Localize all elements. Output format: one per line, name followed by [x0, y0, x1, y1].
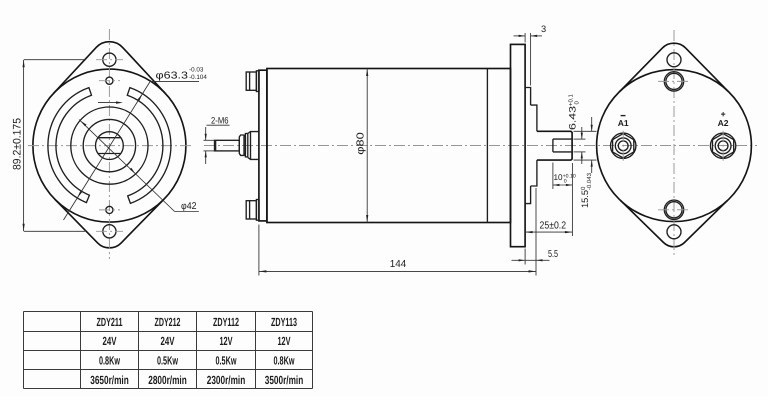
middle view: top tie bolt washer: [256, 71, 259, 92]
middle view: left end cap: [259, 70, 267, 221]
middle view: dimension 10 +0.1/0 (slot depth): [552, 163, 554, 190]
middle view: bottom tie bolt head: [246, 201, 256, 219]
middle view: φ63.3 spigot boss: [525, 88, 531, 204]
right view: bottom ear hole: [667, 225, 681, 239]
svg-text:ZDY211: ZDY211: [97, 315, 123, 329]
middle view: dimension 3 (spigot step): [524, 33, 526, 43]
right view: flange plate ears: [619, 43, 728, 92]
svg-text:3: 3: [541, 24, 546, 34]
middle view: body seam line: [486, 69, 488, 223]
svg-text:12V: 12V: [220, 334, 233, 348]
middle view: dimension 15.5 0/-0.043 (shaft dia): [574, 130, 597, 132]
svg-text:2800r/min: 2800r/min: [148, 373, 187, 387]
middle view: bottom tie bolt washer: [256, 200, 259, 221]
svg-text:3500r/min: 3500r/min: [265, 373, 304, 387]
spec table grid: [24, 311, 313, 313]
middle view: dimension 6.43 +0.1/0 (slot width): [574, 138, 586, 140]
right view: bottom through-bolt (double circle): [664, 200, 683, 219]
left view: bottom ear mounting hole: [103, 225, 116, 238]
left view: top ear mounting hole: [103, 53, 116, 66]
svg-text:5.5: 5.5: [548, 249, 558, 260]
left view: bottom through-bolt hole: [106, 206, 113, 213]
svg-text:ZDY212: ZDY212: [155, 315, 181, 329]
middle view: shaft slot (keyway): [553, 138, 572, 140]
terminal A1: [611, 133, 636, 158]
middle view: dimension 25±0.2: [525, 231, 572, 233]
svg-text:φ42: φ42: [181, 201, 197, 212]
svg-text:φ63.3: φ63.3: [156, 71, 189, 82]
svg-text:3650r/min: 3650r/min: [90, 373, 129, 387]
svg-text:25±0.2: 25±0.2: [540, 220, 567, 231]
right view: motor body circle: [597, 70, 752, 222]
middle view: dimension 5.5: [524, 249, 526, 265]
terminal A2: [710, 133, 735, 158]
left view: flange plate outline (diamond ears): [53, 42, 165, 94]
right view: top ear hole: [667, 53, 681, 67]
middle view: dimension 2-M6: [204, 139, 215, 141]
middle view: output shaft: [537, 131, 572, 160]
middle view: motor body: [267, 69, 511, 223]
middle view: dimension 144: [258, 225, 260, 276]
middle view: stud hex nut: [239, 135, 245, 155]
svg-text:0.5Kw: 0.5Kw: [157, 354, 178, 368]
middle view: φ42 spigot boss: [531, 105, 537, 186]
middle view: dimension φ80: [366, 69, 368, 223]
svg-text:φ80: φ80: [356, 132, 367, 155]
left view: shaft circle: [96, 132, 124, 160]
left view: motor body circle: [33, 69, 186, 222]
svg-text:0.8Kw: 0.8Kw: [99, 354, 120, 368]
svg-text:24V: 24V: [161, 334, 175, 348]
left view: dimension φ42: [79, 120, 175, 212]
svg-text:24V: 24V: [103, 334, 117, 348]
left view: arc slot (right): [127, 88, 171, 204]
middle view: top tie bolt head: [246, 72, 256, 90]
right view: vertical centerline: [673, 30, 675, 256]
svg-text:144: 144: [390, 259, 407, 270]
svg-text:-0.104: -0.104: [189, 74, 207, 81]
svg-text:89.2±0.175: 89.2±0.175: [11, 118, 23, 170]
svg-text:0.5Kw: 0.5Kw: [216, 354, 237, 368]
svg-text:+: +: [721, 109, 726, 119]
left view: rotation direction arrow: [98, 102, 120, 104]
middle view: M6 stud thread: [215, 140, 240, 151]
middle view: mounting flange plate (edge view): [511, 44, 526, 246]
left view: dimension 89.2±0.175: [24, 59, 85, 61]
left view: concentric circles (bearing boss / spigot): [83, 119, 135, 171]
svg-text:-0.03: -0.03: [189, 67, 204, 74]
left view: horizontal centerline: [28, 145, 192, 147]
svg-text:2-M6: 2-M6: [211, 116, 229, 126]
svg-text:A2: A2: [718, 118, 729, 128]
left view: top through-bolt hole: [106, 77, 113, 84]
left view: shaft flats (chords): [98, 137, 121, 139]
svg-text:0.8Kw: 0.8Kw: [274, 354, 295, 368]
right view: top through-bolt (double circle): [664, 72, 683, 91]
svg-text:12V: 12V: [278, 334, 291, 348]
left view: vertical centerline: [108, 29, 110, 259]
middle view: horizontal centerline: [204, 145, 757, 147]
left view: dimension φ63.3 -0.03/-0.104: [64, 81, 151, 220]
svg-text:ZDY113: ZDY113: [271, 315, 297, 329]
left view: arc slot (left): [48, 88, 92, 203]
svg-text:ZDY112: ZDY112: [213, 315, 239, 329]
middle view: bearing boss on end cap: [248, 132, 259, 160]
svg-text:A1: A1: [618, 118, 629, 128]
middle view: stud washer: [245, 134, 247, 157]
svg-text:2300r/min: 2300r/min: [207, 373, 246, 387]
